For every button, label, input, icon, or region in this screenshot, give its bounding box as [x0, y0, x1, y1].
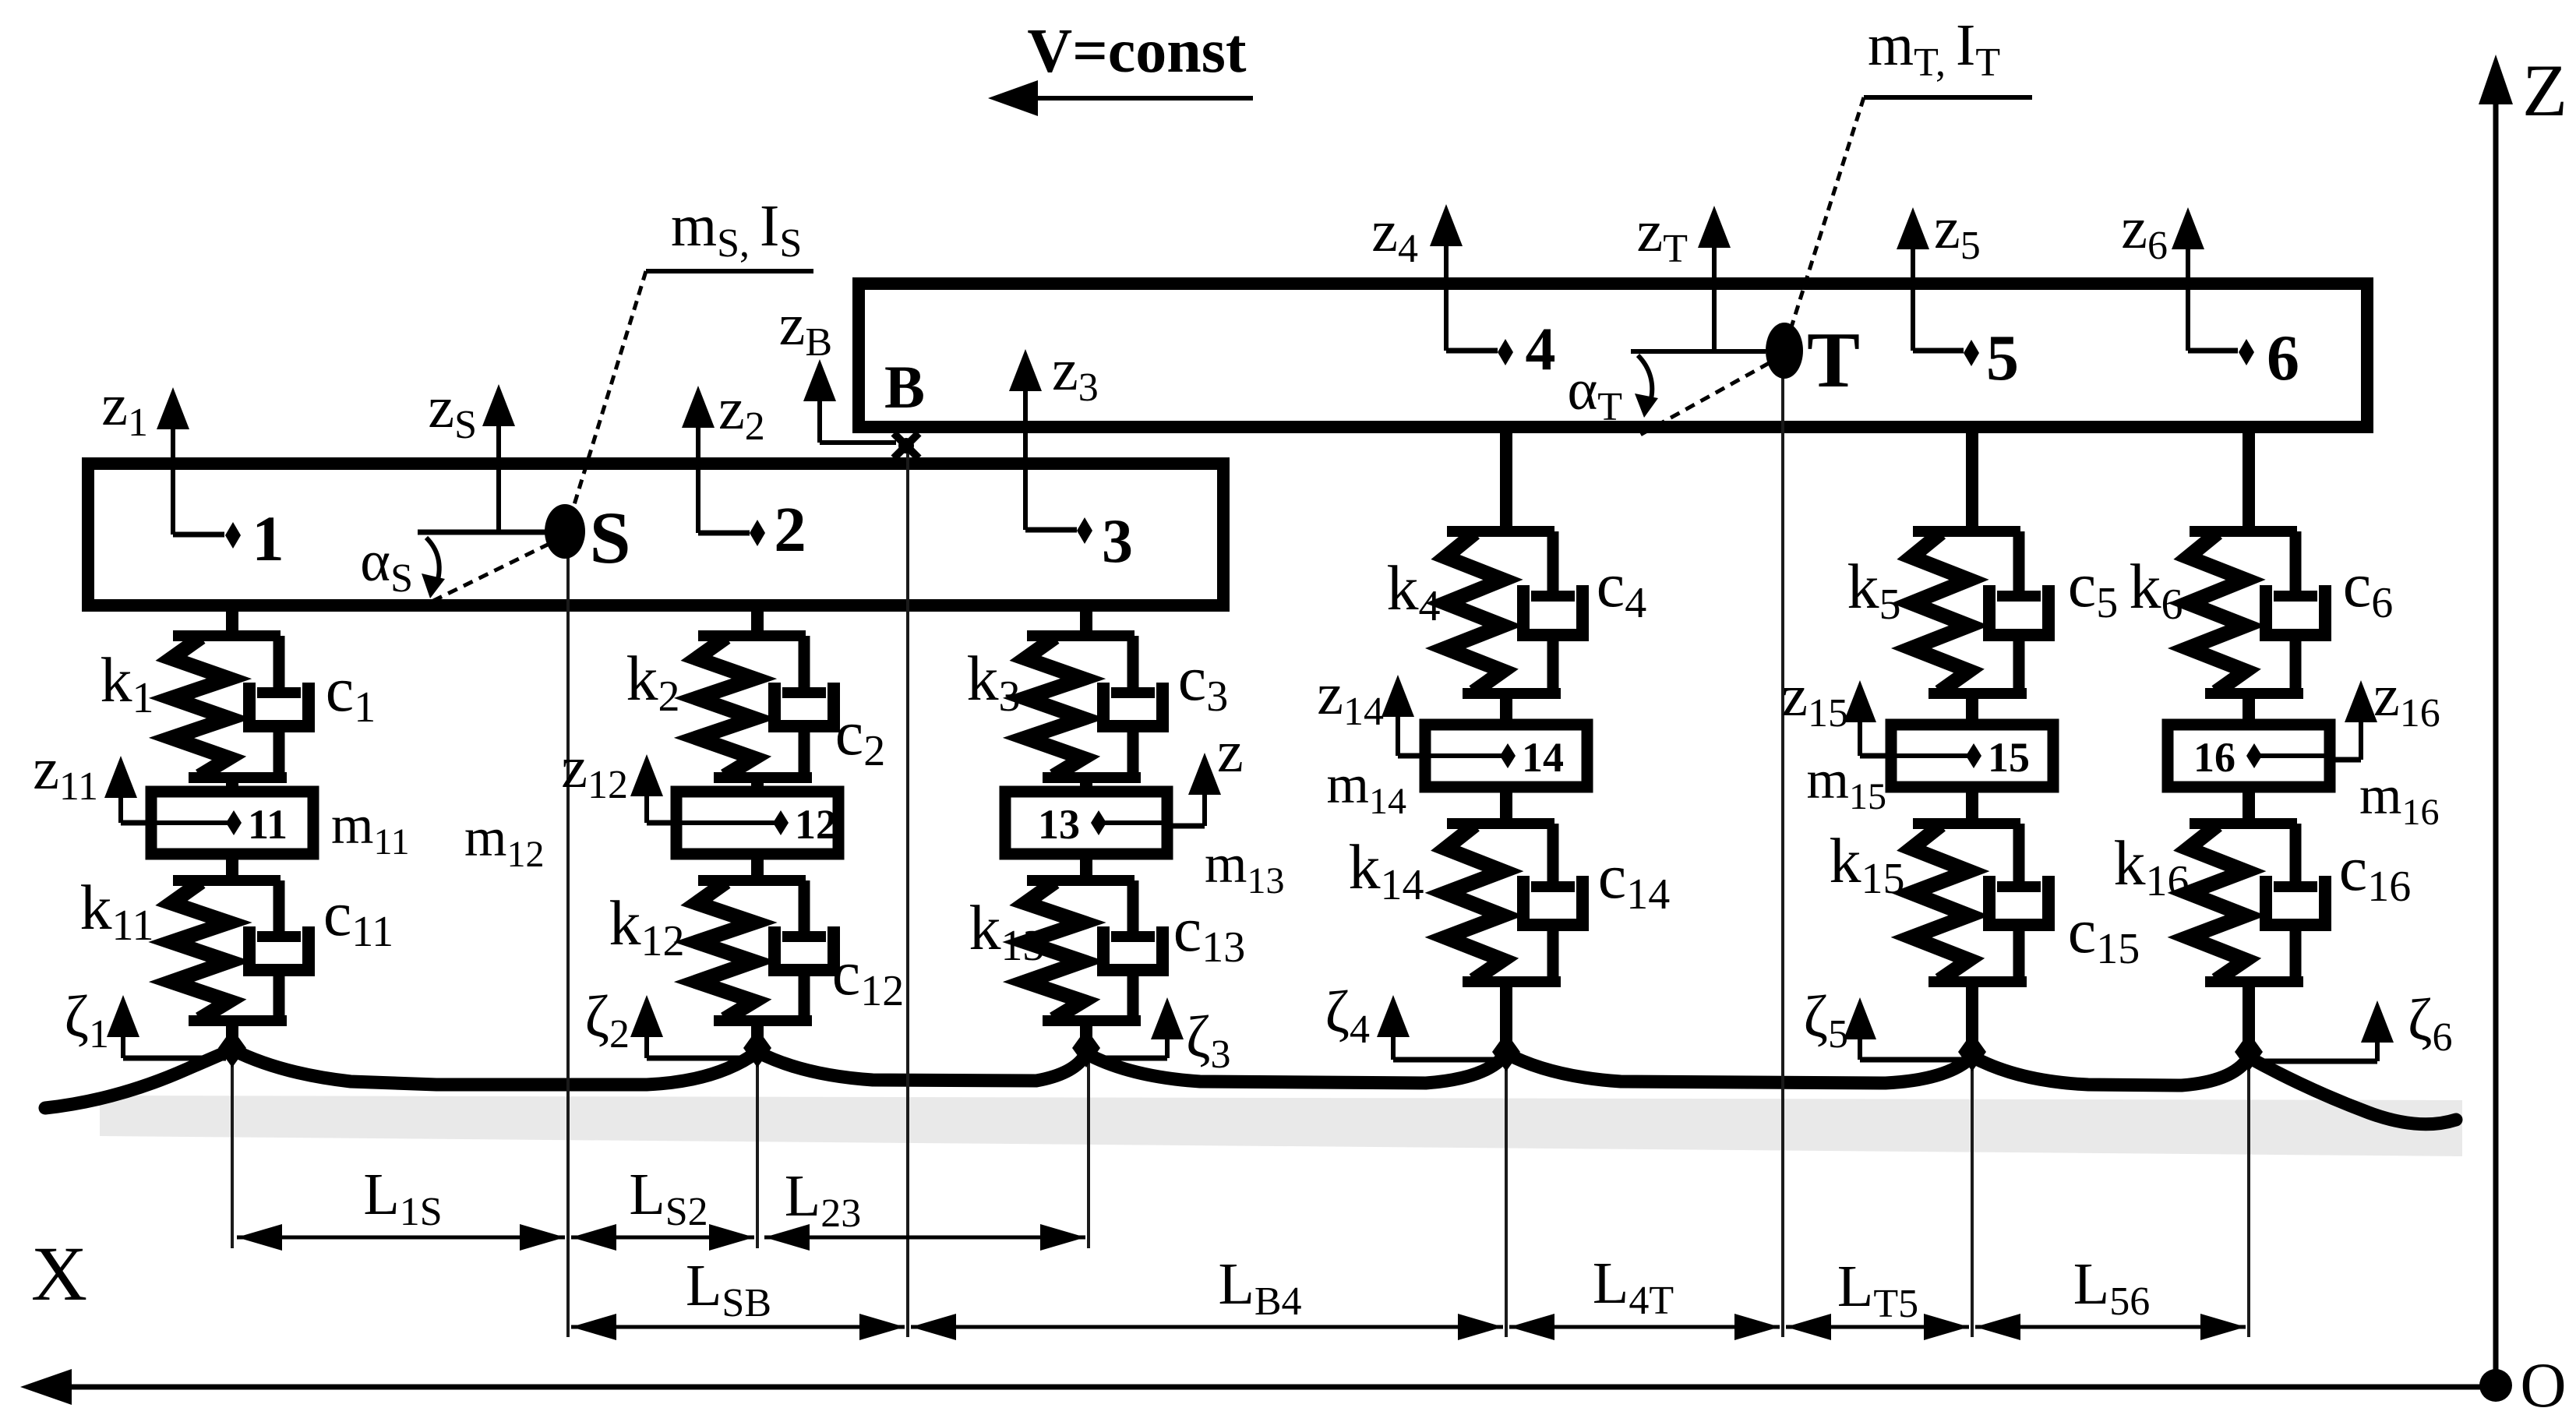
body S beam (trailer) [88, 464, 1223, 605]
dimension L_T5 [1786, 1254, 1969, 1340]
zeta5 arrow at contact 5 [1804, 984, 1966, 1060]
z11 arrow at mass 11 [33, 736, 151, 823]
svg-text:O: O [2520, 1350, 2566, 1420]
wire mass 13 to unit k13 [1080, 854, 1092, 880]
wire mass 15 to unit k15 [1966, 787, 1978, 824]
node line T [1781, 355, 1784, 1337]
axis X [20, 1230, 2496, 1405]
node 1 marker and z1 arrow [101, 372, 284, 574]
wire unit4 to mass 14 [1500, 693, 1512, 725]
svg-text:T: T [1807, 316, 1860, 404]
zeta3 arrow at contact 3 [1094, 997, 1230, 1077]
svg-text:15: 15 [1988, 734, 2030, 781]
spring k2 [626, 637, 755, 776]
damper c2 [775, 636, 885, 778]
damper c15 [1989, 824, 2140, 982]
origin O [2479, 1350, 2567, 1420]
svg-text:11: 11 [248, 801, 288, 848]
wire unit 16 frame bars [2190, 818, 2297, 829]
node 5 marker and z5 arrow [1897, 196, 2019, 394]
node 4 marker and z4 arrow [1371, 199, 1555, 383]
mass m13 [1005, 792, 1167, 854]
dimension L_4T [1509, 1251, 1780, 1340]
dimension L_23 [764, 1163, 1085, 1251]
spring k12 [609, 882, 755, 1019]
dimension L_SB [571, 1253, 905, 1340]
wire stub beam to suspension 2 [751, 605, 764, 636]
node line wheel 3 [1087, 1053, 1090, 1248]
damper c14 [1523, 824, 1670, 982]
contact node wheel 6 [2235, 1032, 2263, 1071]
wire unit 14 to road contact [1500, 982, 1512, 1052]
spring k4 [1387, 533, 1504, 692]
node T marker and z_T arrow [1637, 199, 1861, 404]
zeta4 arrow at contact 4 [1325, 979, 1500, 1060]
label m_S, I_S with leader to S [566, 193, 813, 530]
dimension L_1S [237, 1162, 565, 1251]
wire unit1 to mass 11 [226, 778, 238, 792]
node S marker, z_S arrow [428, 375, 630, 579]
z12 arrow at mass 12 [561, 735, 676, 823]
spring k13 [969, 882, 1084, 1019]
wire unit 13 to road contact [1080, 1021, 1092, 1048]
road profile [45, 1050, 2456, 1124]
wire unit 3 frame bars [1027, 630, 1134, 641]
contact node wheel 1 [218, 1029, 246, 1067]
z16 arrow at mass 16 [2330, 663, 2440, 760]
svg-text:16: 16 [2193, 734, 2235, 781]
wire unit 6 frame bars [2190, 526, 2297, 537]
wire unit 12 frame bars [698, 875, 806, 886]
wire mass 11 to unit k11 [226, 854, 238, 880]
wire stub beam to suspension 6 [2243, 427, 2255, 531]
damper c13 [1103, 880, 1245, 1021]
node 6 marker and z6 arrow [2121, 196, 2299, 394]
mass m14 [1425, 725, 1587, 787]
damper c4 [1523, 531, 1646, 693]
spring k14 [1349, 825, 1504, 980]
z arrow at mass 13 [1167, 719, 1244, 826]
mass m12 [676, 792, 838, 854]
svg-text:Z: Z [2522, 49, 2567, 132]
wire stub beam to suspension 3 [1080, 605, 1092, 636]
node line wheel 1 [231, 1050, 234, 1248]
zeta2 arrow at contact 2 [585, 984, 750, 1058]
z14 arrow at mass 14 [1317, 662, 1425, 756]
node 3 marker and z3 arrow [1009, 337, 1133, 576]
node 2 marker and z2 arrow [682, 376, 806, 565]
mass m16 [2168, 725, 2330, 787]
spring k1 [101, 637, 230, 776]
wire unit 15 to road contact [1966, 982, 1978, 1052]
mass m11 [151, 792, 313, 854]
node line wheel 6 [2247, 1057, 2250, 1337]
node line B [906, 450, 909, 1337]
damper c1 [249, 636, 376, 778]
wire unit 12 to road contact [751, 1021, 764, 1048]
zeta6 arrow at contact 6 [2255, 987, 2452, 1061]
spring k15 [1830, 825, 1970, 980]
spring k5 [1847, 533, 1970, 692]
z15 arrow at mass 15 [1781, 663, 1891, 756]
dimension L_S2 [571, 1162, 754, 1251]
node line wheel 5 [1971, 1057, 1974, 1337]
svg-text:13: 13 [1038, 801, 1080, 848]
node line wheel 2 [756, 1052, 759, 1248]
zeta1 arrow at contact 1 [65, 984, 226, 1058]
contact node wheel 2 [743, 1029, 771, 1067]
svg-text:1: 1 [252, 503, 284, 574]
svg-text:5: 5 [1986, 322, 2019, 394]
alpha_S angle: ray, dashed ray, arc arrow [360, 530, 565, 604]
wire unit 5 frame bars [1913, 526, 2020, 537]
spring k6 [2130, 533, 2246, 692]
damper c3 [1103, 636, 1228, 778]
wire unit 2 frame bars [698, 630, 806, 641]
spring k11 [80, 872, 229, 1019]
wire unit 16 to road contact [2243, 982, 2255, 1052]
contact node wheel 4 [1492, 1032, 1520, 1071]
wire mass 12 to unit k12 [751, 854, 764, 880]
svg-text:z: z [1217, 719, 1244, 785]
wire unit 14 frame bars [1447, 818, 1554, 829]
wire mass 14 to unit k14 [1500, 787, 1512, 824]
wire unit 15 frame bars [1913, 818, 2020, 829]
wire unit 11 to road contact [226, 1021, 238, 1048]
spring k3 [967, 637, 1084, 776]
damper c11 [249, 878, 393, 1021]
label m_T, I_T with leader to T [1786, 12, 2032, 344]
wire stub beam to suspension 1 [226, 605, 238, 636]
dimension L_56 [1975, 1251, 2246, 1340]
svg-text:3: 3 [1102, 507, 1133, 576]
wire mass 16 to unit k16 [2243, 787, 2255, 824]
wire unit3 to mass 13 [1080, 778, 1092, 792]
alpha_T angle: ray, dashed ray, arc arrow [1567, 351, 1784, 435]
wire stub beam to suspension 5 [1966, 427, 1978, 531]
wire unit 11 frame bars [173, 875, 281, 886]
node line wheel 4 [1505, 1053, 1508, 1337]
contact node wheel 3 [1072, 1029, 1100, 1067]
wire unit2 to mass 12 [751, 778, 764, 792]
svg-text:14: 14 [1522, 734, 1564, 781]
svg-text:X: X [31, 1230, 87, 1317]
wire unit 1 frame bars [173, 630, 281, 641]
spring k16 [2114, 825, 2246, 980]
wire unit 13 frame bars [1027, 875, 1134, 886]
svg-text:V=const: V=const [1027, 17, 1246, 86]
wire unit6 to mass 16 [2243, 693, 2255, 725]
V=const label and arrow [988, 17, 1253, 116]
svg-text:S: S [590, 496, 631, 579]
node line S [566, 536, 570, 1337]
axis Z [2479, 49, 2567, 1387]
damper c16 [2266, 824, 2411, 982]
damper c12 [775, 880, 904, 1021]
svg-text:2: 2 [774, 493, 806, 565]
contact node wheel 5 [1958, 1032, 1986, 1071]
dimension L_B4 [911, 1251, 1503, 1340]
svg-text:4: 4 [1526, 315, 1556, 383]
svg-text:6: 6 [2267, 322, 2299, 394]
wire unit 4 frame bars [1447, 526, 1554, 537]
node B marker and z_B arrow [779, 292, 925, 458]
svg-text:12: 12 [795, 801, 837, 848]
mass m15 [1891, 725, 2053, 787]
svg-text:B: B [884, 353, 925, 421]
body T beam (tractor) [859, 284, 2367, 427]
damper c5 [1989, 531, 2118, 693]
wire stub beam to suspension 4 [1500, 427, 1512, 531]
wire unit5 to mass 15 [1966, 693, 1978, 725]
ground band [100, 1096, 2462, 1156]
damper c6 [2266, 531, 2393, 693]
